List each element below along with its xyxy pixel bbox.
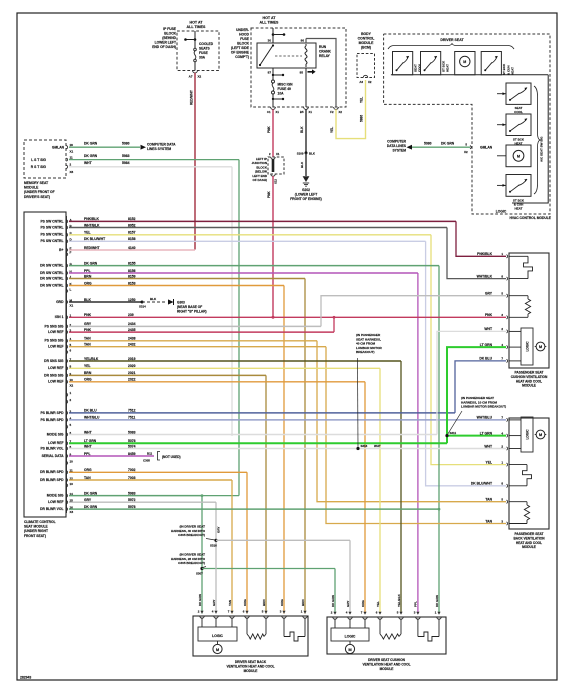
svg-text:DK GRN: DK GRN (84, 154, 98, 158)
svg-text:IP FUSE: IP FUSE (163, 27, 177, 31)
svg-text:30A: 30A (199, 56, 206, 60)
svg-text:MODULE: MODULE (244, 669, 258, 673)
svg-text:DR BLWR SPD: DR BLWR SPD (40, 470, 64, 474)
svg-text:8156: 8156 (128, 269, 136, 273)
pin L of climate control seat module (67, 289, 68, 292)
svg-text:PS SW CNTRL: PS SW CNTRL (40, 233, 63, 237)
svg-text:X2: X2 (70, 384, 74, 388)
connector pin 3 PPL of DR cushion module (416, 617, 420, 619)
svg-text:WHT/BLU: WHT/BLU (477, 416, 493, 420)
pin 14 of climate control seat module (67, 494, 68, 497)
wire DK GRN 5983 from memory seat module (69, 159, 239, 161)
svg-text:PPL: PPL (84, 452, 91, 456)
svg-text:PASSENGER SEAT: PASSENGER SEAT (515, 371, 544, 375)
svg-text:HOT AT: HOT AT (190, 21, 204, 25)
wire row K ORG 8153 to DR back module pin 3 (69, 285, 284, 287)
svg-text:A6: A6 (359, 80, 363, 84)
svg-text:LOWER LEFT: LOWER LEFT (155, 41, 176, 45)
svg-text:YEL: YEL (485, 460, 492, 464)
svg-text:5983: 5983 (128, 491, 136, 495)
svg-text:HEAT: HEAT (511, 67, 515, 75)
svg-text:CLIMATE CONTROL: CLIMATE CONTROL (24, 520, 56, 524)
wire PNK from junction block down to IGN 1 row (272, 176, 274, 317)
memory seat module dashed box (24, 140, 66, 178)
svg-text:MODULE: MODULE (522, 545, 536, 549)
relay switch symbol (260, 46, 273, 65)
svg-text:F: F (70, 251, 72, 255)
svg-text:LOGIC: LOGIC (212, 634, 223, 638)
svg-text:ORG: ORG (84, 468, 92, 472)
relay pin 30 feed wire (272, 28, 274, 43)
svg-text:8157: 8157 (128, 231, 136, 235)
svg-text:2021: 2021 (128, 371, 136, 375)
motor M inside DR back module (217, 641, 219, 645)
pin 1 of climate control seat module (67, 316, 68, 319)
svg-text:OF DASH): OF DASH) (253, 178, 268, 182)
pin 10 of climate control seat module (67, 380, 68, 383)
svg-text:5978: 5978 (128, 505, 136, 509)
pin 12 of climate control seat module (67, 478, 68, 481)
svg-text:SEATS: SEATS (199, 47, 211, 51)
pin 9 of climate control seat module (67, 374, 68, 377)
svg-text:TAN: TAN (485, 498, 492, 502)
svg-text:S314: S314 (139, 305, 146, 309)
svg-text:DK GRN: DK GRN (84, 505, 98, 509)
svg-text:DK GRN: DK GRN (441, 142, 455, 146)
svg-text:DRIVER SEAT: DRIVER SEAT (440, 38, 464, 42)
svg-text:MODULE: MODULE (24, 186, 39, 190)
svg-text:DR SW CNTRL: DR SW CNTRL (40, 264, 63, 268)
svg-text:GRY: GRY (84, 498, 92, 502)
svg-text:(LEFT SIDE: (LEFT SIDE (231, 46, 250, 50)
pin 11 of climate control seat module (67, 471, 68, 474)
HVAC column indicator M (506, 145, 531, 167)
wire row A PNK/BLK 8152 to PS cushion module pin 1 (69, 220, 456, 222)
wire DK GRN 5080 to computer data lines (memory seat) (69, 146, 140, 148)
svg-text:PS BLWR SPD: PS BLWR SPD (40, 418, 64, 422)
wire row M BLK 1250 ground with splice S314 (69, 301, 142, 303)
pin 13 of climate control seat module (67, 484, 68, 487)
HVAC column switch ST BCK AND CUSH HEAT (506, 175, 531, 197)
svg-text:DK BLU/WHT: DK BLU/WHT (84, 237, 105, 241)
svg-text:COMPUTER DATA: COMPUTER DATA (147, 143, 176, 147)
pin 16 of climate control seat module (67, 507, 68, 510)
HVAC seat switch signal brace (534, 86, 540, 194)
svg-text:8155: 8155 (128, 261, 136, 265)
svg-text:5984: 5984 (122, 161, 130, 165)
wire row 2 GRY 2434 to PS cushion module pin 5 (69, 325, 321, 327)
svg-text:2438: 2438 (128, 337, 136, 341)
svg-text:BODY: BODY (361, 32, 372, 36)
svg-text:HEAT AND COOL: HEAT AND COOL (516, 379, 542, 383)
svg-text:ORG: ORG (84, 281, 92, 285)
wire row 16 DK GRN 5978 joining dark green riser (69, 508, 439, 510)
svg-text:TAN: TAN (84, 343, 91, 347)
svg-text:B11: B11 (147, 452, 153, 456)
svg-text:X1: X1 (70, 150, 74, 154)
pin H of climate control seat module (67, 271, 68, 274)
wire DK GRN 5080 GMLAN to HVAC module (412, 146, 470, 148)
svg-text:LT GRN: LT GRN (480, 431, 493, 435)
svg-text:BRN: BRN (262, 600, 266, 607)
svg-text:YEL: YEL (330, 127, 334, 133)
svg-text:DK GRN: DK GRN (198, 594, 202, 606)
pin B of climate control seat module (67, 226, 68, 229)
svg-text:F2: F2 (330, 110, 334, 114)
svg-text:BLK: BLK (300, 161, 304, 168)
svg-text:ORG: ORG (361, 600, 365, 608)
svg-text:WHT/BLU: WHT/BLU (84, 416, 100, 420)
splice S311 (445, 434, 448, 437)
svg-text:HEAT: HEAT (515, 206, 523, 210)
HVAC column switch SEAT COOL (506, 83, 531, 104)
relay internal dashed link (275, 55, 302, 57)
fuse COOLED SEATS 30A symbol (194, 48, 197, 51)
connector pin 2 DK GRN of DR cushion module (333, 617, 337, 619)
svg-text:LOW REF: LOW REF (48, 500, 63, 504)
svg-text:7002: 7002 (128, 468, 136, 472)
svg-text:SERIAL DATA: SERIAL DATA (42, 454, 65, 458)
svg-text:YEL: YEL (84, 364, 91, 368)
wire feed inside IP fuse block (194, 31, 196, 48)
svg-text:86: 86 (301, 39, 305, 43)
connector pin 1 DK GRN of DR cushion module (437, 617, 441, 619)
passenger seat cushion ventilation heat and cool module box (509, 253, 549, 368)
svg-text:DR BLWR SPD: DR BLWR SPD (40, 478, 64, 482)
connector at IP fuse block output (193, 71, 198, 73)
left IP junction block dashed box (268, 157, 284, 174)
svg-text:282943: 282943 (20, 676, 31, 680)
svg-text:B5: B5 (300, 110, 304, 114)
svg-text:8152: 8152 (128, 217, 136, 221)
svg-text:PS SNS SIG: PS SNS SIG (45, 324, 64, 328)
svg-text:BLK: BLK (84, 298, 91, 302)
HVAC control module dashed outline (384, 34, 550, 214)
svg-text:BRN: BRN (301, 600, 305, 607)
svg-text:S311: S311 (450, 431, 457, 435)
wire row E RED/WHT 4140 from IP fuse (69, 249, 195, 251)
wire row 6 WHT 5083 to PS cushion module pin 2 (69, 434, 437, 436)
IP fuse block dashed box (177, 31, 219, 71)
pin 6 of climate control seat module (67, 433, 68, 436)
svg-text:GMLAN: GMLAN (52, 146, 65, 150)
pin 8 of climate control seat module (67, 367, 68, 370)
svg-text:2435: 2435 (128, 328, 136, 332)
wire row 9 SERIAL DATA PPL 8459 not used (69, 455, 154, 457)
svg-text:TAN: TAN (228, 600, 232, 606)
heater element inside PS back module (509, 464, 527, 466)
svg-text:ORG: ORG (280, 599, 284, 607)
connector pin 5 YEL/BLK of DR cushion module (399, 617, 403, 619)
climate control seat module box (24, 212, 66, 517)
svg-text:BLK: BLK (300, 126, 304, 133)
switch rail inside HVAC module (391, 74, 548, 76)
pin 4 of climate control seat module (67, 418, 68, 421)
svg-text:X1: X1 (276, 110, 280, 114)
connector pin 6 YEL of DR cushion module (378, 617, 382, 619)
svg-text:UNDER-: UNDER- (236, 28, 249, 32)
svg-text:DK BLU/WHT: DK BLU/WHT (471, 482, 492, 486)
svg-text:DK GRN: DK GRN (84, 142, 98, 146)
driver seat switch ST BCK AND CUSH HEAT (481, 52, 501, 75)
svg-text:GRY: GRY (212, 600, 216, 606)
svg-text:RIGHT "B" PILLAR): RIGHT "B" PILLAR) (177, 309, 207, 313)
svg-text:PS BLWR VOL: PS BLWR VOL (40, 446, 63, 450)
svg-text:10: 10 (70, 459, 74, 463)
wire row 5 TAN 2432 to PS back module pin 3 (69, 346, 326, 348)
svg-text:LOW REF: LOW REF (48, 380, 63, 384)
svg-text:TAN: TAN (84, 476, 91, 480)
relay coil symbol (305, 46, 307, 64)
svg-text:18: 18 (70, 143, 74, 147)
wire row 7 LT GRN 5078 to PS cushion module pin 4 and splice S311 (69, 442, 447, 444)
svg-text:X1: X1 (276, 152, 280, 156)
svg-text:MODULE: MODULE (359, 41, 374, 45)
svg-text:MODE SIG: MODE SIG (47, 494, 64, 498)
svg-text:M: M (517, 155, 520, 159)
svg-text:BRN: BRN (84, 371, 92, 375)
svg-text:X2: X2 (198, 75, 202, 79)
svg-text:X1: X1 (309, 110, 313, 114)
svg-text:C305 BREAKOUT): C305 BREAKOUT) (178, 533, 205, 537)
wire row 3 DK BLU 7512 to PS cushion module pin 7 (69, 412, 455, 414)
wire row 15 GRY 5972 to DR back module pin 4 with splice S316 (69, 501, 216, 503)
svg-text:GRY: GRY (84, 322, 92, 326)
svg-text:COOL: COOL (514, 110, 523, 114)
svg-text:FRONT OF ENGINE): FRONT OF ENGINE) (290, 197, 322, 201)
svg-text:85: 85 (300, 71, 304, 75)
svg-text:DR SW CNTRL: DR SW CNTRL (40, 276, 63, 280)
pin A of climate control seat module (67, 220, 68, 223)
pin 9 of climate control seat module (67, 454, 68, 457)
svg-text:M: M (463, 60, 466, 64)
svg-text:BLOCK: BLOCK (164, 32, 176, 36)
svg-text:PS BLWR SPD: PS BLWR SPD (40, 411, 64, 415)
svg-text:ORG: ORG (243, 599, 247, 607)
svg-text:LOGIC: LOGIC (526, 341, 530, 352)
pin 15 of climate control seat module (67, 501, 68, 504)
svg-text:RED/WHT: RED/WHT (190, 90, 194, 105)
svg-text:(UNDER FRONT OF: (UNDER FRONT OF (24, 190, 55, 194)
svg-text:YEL: YEL (360, 97, 364, 103)
wire row H PPL 8156 to DR cushion module pin 3 (69, 272, 418, 274)
svg-text:FRONT SEAT): FRONT SEAT) (24, 534, 46, 538)
pin 4 of climate control seat module (67, 339, 68, 342)
pin 2 of climate control seat module (67, 325, 68, 328)
wire DK GRN vertical from memory seat joining MODE SIG row 14 (238, 160, 240, 496)
svg-text:1250: 1250 (128, 298, 136, 302)
svg-text:WHT/BLK: WHT/BLK (84, 223, 100, 227)
svg-text:LT GRN: LT GRN (480, 343, 493, 347)
svg-text:BRN: BRN (84, 274, 92, 278)
svg-text:X3: X3 (70, 510, 74, 514)
connector GMLAN at HVAC module (470, 146, 471, 149)
svg-text:LOW REF: LOW REF (48, 330, 63, 334)
svg-text:B+: B+ (59, 248, 63, 252)
svg-text:10A: 10A (278, 92, 285, 96)
svg-text:DK BLU: DK BLU (479, 357, 492, 361)
splice S109 (305, 151, 308, 154)
svg-text:PS SW CNTRL: PS SW CNTRL (40, 225, 63, 229)
svg-text:(UNDER RIGHT: (UNDER RIGHT (24, 529, 48, 533)
svg-text:ORG: ORG (84, 378, 92, 382)
svg-text:X2: X2 (339, 110, 343, 114)
body control module dashed box (357, 54, 375, 78)
svg-text:ALL TIMES: ALL TIMES (187, 25, 207, 29)
svg-text:(BCM): (BCM) (361, 46, 371, 50)
svg-text:DRIVER'S SEAT): DRIVER'S SEAT) (24, 195, 50, 199)
connector pin 7 ORG of DR cushion module (363, 617, 367, 619)
svg-text:PNK/BLK: PNK/BLK (84, 217, 99, 221)
svg-text:COOLED: COOLED (199, 42, 214, 46)
svg-text:DR SW CNTRL: DR SW CNTRL (40, 271, 63, 275)
wire row 11 ORG 7002 to DR back module pin 6 (69, 471, 247, 473)
svg-text:WHT: WHT (84, 161, 92, 165)
svg-text:LOW REF: LOW REF (48, 366, 63, 370)
wire row 4 WHT/BLU 7511 to PS back module pin 7 (69, 419, 506, 421)
svg-text:5983: 5983 (122, 154, 130, 158)
svg-text:DR SNS SIG: DR SNS SIG (44, 359, 64, 363)
wire RED/WHT from IP fuse block down to pin E row (194, 73, 196, 250)
temperature sensor resistor inside PS cushion module (509, 295, 528, 297)
pin 10 of climate control seat module (67, 461, 68, 464)
svg-text:5986: 5986 (360, 115, 364, 122)
svg-text:G202: G202 (302, 188, 310, 192)
svg-text:X2: X2 (464, 150, 468, 154)
connector pin 5 BRN of DR back module (264, 616, 268, 618)
svg-text:7512: 7512 (128, 409, 136, 413)
driver seat switch SEAT COOL (393, 52, 413, 75)
logic block inside PS cushion module (509, 330, 521, 332)
svg-text:L S T SIG: L S T SIG (31, 158, 46, 162)
svg-text:PPL: PPL (414, 601, 418, 607)
connector pin 1 BRN of DR back module (303, 616, 307, 618)
logic block inside PS back module (509, 419, 521, 421)
svg-text:2022: 2022 (128, 378, 136, 382)
svg-text:MODULE: MODULE (522, 384, 536, 388)
svg-text:BACK VENTILATION: BACK VENTILATION (513, 536, 545, 540)
svg-text:5078: 5078 (128, 439, 136, 443)
svg-text:RED/WHT: RED/WHT (84, 246, 100, 250)
svg-text:GRY: GRY (485, 292, 493, 296)
pin G of climate control seat module (67, 264, 68, 267)
wire row D DK BLU/WHT 8158 to PS back module pin 8 (69, 240, 426, 242)
wire row J BRN 8159 to DR back module pin 1 (69, 278, 305, 280)
connectors at underhood fuse block bottom edge (271, 107, 276, 109)
svg-text:8459: 8459 (128, 452, 136, 456)
wire row 7 YEL/BLK 2019 to DR cushion module pin 5 (69, 360, 401, 362)
svg-text:GRY: GRY (346, 601, 350, 607)
svg-text:COMP'T): COMP'T) (235, 55, 249, 59)
svg-text:PNK: PNK (267, 126, 271, 133)
wire row 8 YEL 2020 to DR cushion module pin 6 (69, 367, 380, 369)
pin M of climate control seat module (67, 300, 68, 303)
splice S313 (356, 447, 359, 450)
svg-text:CONTROL: CONTROL (358, 37, 375, 41)
svg-text:MISC IGN: MISC IGN (278, 83, 294, 87)
svg-text:239: 239 (128, 313, 134, 317)
pin 8 of climate control seat module (67, 447, 68, 450)
svg-text:GMLAN: GMLAN (480, 146, 493, 150)
svg-text:HEAT: HEAT (446, 64, 450, 72)
driver seat indicator symbol (455, 52, 475, 75)
wire row 12 TAN 7003 to DR back module pin 7 (69, 479, 232, 481)
pin F of climate control seat module (67, 253, 68, 256)
svg-text:DR SNS SIG: DR SNS SIG (44, 373, 64, 377)
svg-text:5080: 5080 (424, 142, 432, 146)
wire row 4 TAN 2438 to PS back module pin 5 (69, 340, 317, 342)
svg-text:MODE SIG: MODE SIG (47, 432, 64, 436)
svg-text:MEMORY SEAT: MEMORY SEAT (24, 181, 48, 185)
svg-text:FUSE: FUSE (240, 37, 250, 41)
svg-text:DRIVER SEAT BACK: DRIVER SEAT BACK (235, 660, 267, 664)
svg-text:BLK: BLK (150, 297, 157, 301)
svg-text:PS SW CNTRL: PS SW CNTRL (40, 219, 63, 223)
svg-text:PS SNS SIG: PS SNS SIG (45, 339, 64, 343)
svg-text:S313: S313 (361, 444, 368, 448)
svg-text:LOW REF: LOW REF (48, 441, 63, 445)
svg-text:SEAT MODULE: SEAT MODULE (24, 525, 49, 529)
svg-text:DK GRN: DK GRN (435, 595, 439, 607)
svg-text:PNK: PNK (267, 191, 271, 198)
pin 7 of climate control seat module (67, 359, 68, 362)
junction block connectors and pin labels (271, 157, 275, 159)
svg-text:2432: 2432 (128, 343, 136, 347)
svg-text:TAN: TAN (485, 519, 492, 523)
svg-text:PNK: PNK (84, 313, 92, 317)
svg-text:PS SW CNTRL: PS SW CNTRL (40, 239, 63, 243)
pin J of climate control seat module (67, 277, 68, 280)
svg-text:WHT: WHT (84, 444, 92, 448)
svg-text:HOOD: HOOD (239, 33, 250, 37)
pin D of climate control seat module (67, 240, 68, 243)
connector pin 6 ORG of DR back module (245, 616, 249, 618)
svg-text:PNK: PNK (485, 313, 493, 317)
svg-text:WHT: WHT (484, 444, 492, 448)
svg-text:LOGIC: LOGIC (345, 634, 356, 638)
svg-text:DK GRN: DK GRN (331, 595, 335, 607)
wire PNK from underhood fuse to left IP junction block (272, 109, 274, 157)
pin 6 of climate control seat module (67, 350, 68, 353)
svg-text:DRIVER SEAT CUSHION: DRIVER SEAT CUSHION (368, 658, 405, 662)
svg-text:87: 87 (268, 71, 272, 75)
pin 3 of climate control seat module (67, 411, 68, 414)
wire row 8 WHT 5074 to PS back module pin 2 with splice S313 (69, 448, 506, 450)
svg-text:HVAC CONTROL MODULE: HVAC CONTROL MODULE (510, 216, 552, 220)
wire row 1 IGN1 PNK 239 to PS cushion module pin 3 (69, 316, 506, 318)
svg-text:2434: 2434 (128, 322, 136, 326)
svg-text:LOW REF: LOW REF (48, 345, 63, 349)
pin 5 of climate control seat module (67, 425, 68, 428)
driver seat back ventilation heat and cool module box (193, 616, 308, 656)
svg-text:G303: G303 (177, 301, 185, 305)
svg-text:LOGIC: LOGIC (526, 429, 530, 440)
heater element inside DR back module (283, 618, 285, 635)
motor M inside DR cushion module (349, 641, 351, 645)
svg-text:YEL/BLK: YEL/BLK (84, 357, 99, 361)
svg-text:30: 30 (268, 39, 272, 43)
wire YEL from BCM to relay coil connector (336, 80, 366, 139)
svg-text:LOGIC: LOGIC (496, 210, 507, 214)
svg-text:(LOWER LEFT: (LOWER LEFT (295, 192, 318, 196)
passenger seat back ventilation heat and cool module box (509, 418, 549, 529)
svg-text:PPL: PPL (84, 269, 91, 273)
connector pin 4 GRY of DR back module (214, 616, 218, 618)
svg-text:S316: S316 (210, 544, 217, 548)
logic block inside DR back module (201, 618, 203, 628)
svg-text:PASSENGER SEAT: PASSENGER SEAT (515, 532, 544, 536)
svg-text:8159: 8159 (128, 274, 136, 278)
